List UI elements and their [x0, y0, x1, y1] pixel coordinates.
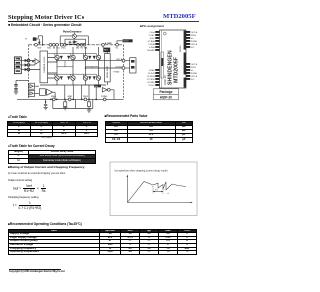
capacitor Cosc external [69, 41, 71, 45]
pin input A [27, 59, 30, 62]
right pin labels [191, 31, 198, 81]
wires comparators [35, 86, 56, 99]
pin T.BLB [83, 43, 86, 46]
waveform curve [127, 182, 186, 203]
transistor Q4 [71, 76, 75, 80]
pin input B [27, 64, 30, 67]
copyright [9, 271, 65, 273]
right section header [140, 24, 164, 28]
ground left [14, 91, 18, 94]
wire load B [125, 67, 130, 69]
junction dots bridge [56, 60, 58, 62]
transistor Q8 [96, 76, 100, 80]
buffer U1 [35, 59, 40, 65]
diode D8 [93, 76, 95, 79]
chip boundary left edge [28, 45, 30, 100]
pin T.BLA [49, 43, 52, 46]
node arrow into pin [39, 42, 41, 44]
wire input C [21, 69, 27, 71]
vref label box [94, 85, 101, 88]
y axis [126, 176, 128, 203]
ground RsA [63, 106, 67, 110]
wires pins to logic [30, 61, 40, 70]
power supply label box [123, 39, 133, 42]
package inner left line [160, 30, 162, 88]
wire input B [21, 64, 27, 66]
pin comparator out [107, 88, 110, 91]
waveform frame [110, 162, 197, 216]
pin OUT A [122, 59, 125, 62]
pin MD [77, 43, 80, 46]
diode D4 [68, 76, 70, 79]
bridge bottom bus [40, 84, 106, 86]
annotation arrows [153, 191, 163, 193]
part number MTD2005F [163, 13, 196, 20]
wire input A [21, 60, 27, 62]
diode D2 [68, 56, 70, 59]
transistor Q1 [55, 55, 59, 59]
pin RS A [52, 98, 55, 101]
left pins [155, 31, 159, 86]
package name vertical text [163, 45, 182, 85]
pin P-GND [103, 98, 106, 101]
pin input C [27, 68, 30, 71]
wire OUT A [57, 60, 122, 62]
input terminal box [14, 57, 21, 74]
capacitor C4 [44, 99, 47, 107]
wire top-right to supply label [117, 41, 123, 44]
sense bus junction dots [50, 99, 52, 101]
junction dot [42, 44, 44, 46]
bridge A wires [57, 47, 73, 85]
left slot [161, 52, 164, 78]
pulse generator box with zener [65, 39, 85, 44]
diode D1 [60, 56, 62, 59]
wire A-GND stub [102, 46, 104, 48]
chip boundary bottom edge (sense bus) [17, 98, 124, 100]
comparator box B [29, 90, 35, 96]
wire sense return rail [53, 99, 93, 108]
annotation dashed lines [152, 186, 154, 194]
circuit small labels [15, 31, 129, 99]
package right edge bar [184, 31, 186, 50]
transistor Q5 [83, 55, 87, 59]
title rule [8, 20, 163, 23]
package table box [154, 89, 179, 100]
pin RS B [84, 98, 87, 101]
left pin labels [147, 32, 156, 87]
node buffer input [32, 61, 34, 63]
svg-text:Iout waveform when chopping (c: Iout waveform when chopping (current dec… [115, 170, 168, 173]
pin OUT B [122, 67, 125, 70]
comparator box C [39, 89, 45, 96]
wire base drive top [48, 54, 97, 57]
diode D5 [89, 56, 91, 59]
pin Vcc [56, 43, 59, 46]
transistor Q3 [55, 76, 59, 80]
formula f [13, 201, 42, 210]
formula Iout [13, 184, 47, 193]
pin IN A [52, 43, 55, 46]
chip boundary top edge [29, 44, 124, 46]
pin Vref [35, 43, 38, 46]
bridge B wires [86, 47, 99, 85]
transistor Q2 [71, 55, 75, 59]
pin IN B [80, 43, 83, 46]
pin OSC1 [60, 43, 63, 46]
title [8, 14, 84, 21]
comparator U2 [47, 89, 53, 95]
pin A-GND [102, 43, 105, 46]
x axis [127, 202, 192, 204]
logic block [40, 51, 48, 83]
wire bridge B cross [86, 67, 99, 68]
wire bridge A cross [57, 61, 73, 67]
wire pulsegen outer loop [60, 36, 88, 45]
chip boundary right edge [123, 45, 125, 100]
transistor Q7 [83, 76, 87, 80]
wire cap to box [16, 79, 29, 81]
wire load A [125, 60, 130, 62]
capacitor C2 left [15, 80, 17, 91]
diode D7 [89, 76, 91, 79]
svg-text:1/f: 1/f [155, 190, 158, 192]
wire OUT B [86, 67, 123, 69]
resistor Rext top-left [33, 37, 37, 40]
left section header [8, 23, 81, 27]
wire Rext loop [36, 36, 42, 44]
transistor Q6 [96, 55, 100, 59]
pulse generator transistor Q0 [72, 34, 76, 38]
wire level shift [106, 52, 108, 85]
right pins [186, 31, 190, 80]
wire base drive bottom [48, 74, 97, 76]
comparator box A [29, 83, 35, 89]
package body [160, 30, 187, 88]
diode D6 [93, 56, 95, 59]
pin OSC2 [63, 43, 66, 46]
svg-text:tf: tf [168, 192, 170, 195]
wire comparator right [110, 90, 114, 100]
sense resistor RsA [64, 99, 66, 101]
comparator U3 [102, 88, 107, 92]
ground rail [87, 106, 91, 112]
sense resistor RsB [88, 99, 90, 101]
pin Vs [116, 43, 119, 46]
ground C4 [43, 107, 47, 109]
diode D3 [60, 76, 62, 79]
pin1 marker [163, 32, 166, 35]
dark label box B [103, 48, 110, 53]
part number underline (blue) [163, 20, 199, 23]
footer rule [9, 269, 61, 270]
wire pulsegen [67, 33, 85, 45]
wires down to sense bus [65, 85, 96, 99]
motor load box [130, 58, 136, 73]
level shift block [104, 54, 110, 82]
pin GND [68, 98, 71, 101]
